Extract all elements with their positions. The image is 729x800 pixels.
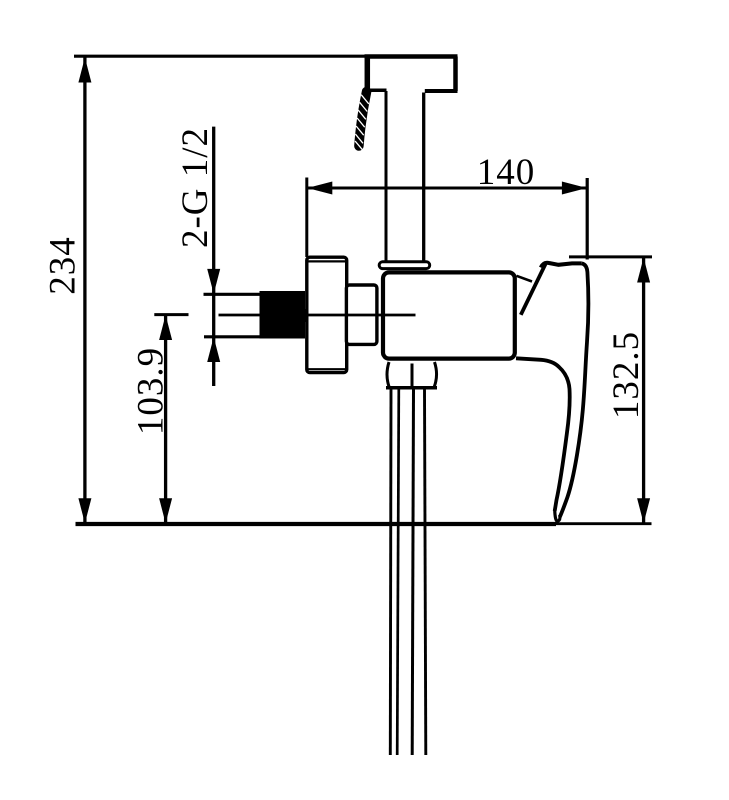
svg-text:2-G 1/2: 2-G 1/2: [175, 127, 216, 248]
hose connector left side: [387, 362, 389, 387]
flange inner bottom line: [309, 368, 346, 370]
head right edge: [453, 57, 458, 92]
arrow 140 left: [307, 182, 332, 195]
escutcheon flange: [307, 257, 347, 372]
arrow 103.9 top: [159, 315, 172, 340]
wire top extension line of 234: [74, 55, 370, 58]
threaded section (black): [260, 291, 306, 339]
handle boss lower edge: [517, 276, 533, 282]
pipe inlet bottom line: [204, 335, 261, 338]
neck right line: [422, 93, 425, 263]
pipe inlet top line: [204, 293, 262, 296]
arrow 234 top: [78, 58, 91, 83]
hose connector right side: [434, 362, 436, 387]
flange inner top line: [309, 260, 346, 262]
hex nut: [346, 285, 377, 344]
extension line 140 right: [586, 178, 589, 260]
valve body cap plate: [379, 262, 430, 269]
trigger lever (hatched band): [359, 92, 367, 147]
arrow 103.9 bottom: [159, 498, 172, 523]
dimension 140 line: [307, 187, 587, 190]
arrow 132.5 top: [637, 258, 650, 283]
dimension 132.5 top extension: [569, 255, 652, 258]
centerline: [219, 314, 416, 317]
head left edge: [365, 57, 371, 91]
handle top curl: [541, 263, 582, 268]
extension line 140 left: [305, 178, 308, 258]
dimension 2-G 1/2 line: [212, 127, 215, 386]
neck left line: [385, 91, 388, 262]
valve body: [383, 272, 515, 358]
handle outer edge: [560, 263, 589, 517]
dimension 103.9 line: [164, 315, 167, 523]
hose connector middle line: [411, 364, 414, 387]
wall baseline thick: [76, 522, 557, 526]
handle inner edge: [516, 358, 570, 511]
head right arm bottom: [425, 89, 458, 93]
svg-text:234: 234: [43, 236, 84, 295]
arrow 2-G1/2 lower (points up to pipe bottom): [207, 337, 220, 362]
dimension 103.9 tick: [154, 313, 188, 316]
svg-text:140: 140: [477, 152, 536, 193]
handle boss diagonal: [521, 262, 547, 315]
sprayer head top bar: [365, 54, 458, 59]
wall baseline thin extension: [556, 522, 652, 525]
handle tip: [555, 509, 560, 521]
arrow 2-G1/2 upper (points down to pipe top): [207, 269, 220, 294]
hose line 2: [397, 390, 399, 756]
arrow 132.5 bottom: [637, 498, 650, 523]
arrow 234 bottom: [78, 498, 91, 523]
dimension 132.5 line: [642, 258, 645, 524]
hose connector bottom: [386, 386, 437, 390]
dimension 234 line: [83, 58, 86, 524]
svg-text:103.9: 103.9: [131, 347, 172, 435]
arrow 140 right: [562, 182, 587, 195]
hose line 4: [425, 390, 426, 756]
svg-text:132.5: 132.5: [606, 331, 647, 419]
hose line 1: [389, 390, 393, 756]
head left arm bottom: [365, 89, 387, 93]
hose line 3: [412, 390, 413, 756]
